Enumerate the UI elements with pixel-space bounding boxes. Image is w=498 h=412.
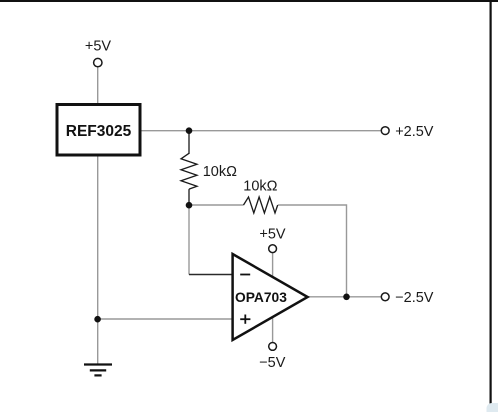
svg-text:10kΩ: 10kΩ (243, 179, 277, 195)
wire ground node to non-inverting input (98, 318, 233, 320)
wire op-amp bottom to -5V supply (272, 316, 274, 342)
terminal circle +5V top (94, 58, 102, 66)
frame right border (490, 0, 492, 404)
op-amp non-inverting pin mark (240, 315, 250, 324)
terminal circle -2.5V (381, 293, 389, 301)
terminal circle op-amp +5V supply (269, 245, 277, 253)
junction node C (ground wire / non-inverting) (94, 316, 101, 323)
svg-text:OPA703: OPA703 (235, 290, 287, 305)
wire node to inverting input (188, 205, 190, 275)
wire REF3025 bottom to ground (97, 156, 99, 365)
wire +5V supply to op-amp top (272, 253, 274, 276)
svg-text:10kΩ: 10kΩ (203, 164, 237, 180)
REF3025 U1 box (57, 105, 140, 156)
terminal circle +2.5V (381, 127, 389, 135)
frame top border (0, 0, 498, 2)
svg-text:REF3025: REF3025 (66, 123, 132, 140)
watermark corner blob (487, 403, 498, 412)
op-amp inverting pin mark (240, 274, 250, 276)
svg-text:+5V: +5V (259, 226, 286, 242)
svg-text:+2.5V: +2.5V (395, 124, 434, 140)
wire +5V to REF3025 top (97, 67, 99, 103)
ground (84, 365, 112, 376)
op-amp U2 OPA703 triangle (233, 254, 308, 340)
wire node to R2 left (189, 204, 244, 206)
terminal circle op-amp -5V supply (269, 343, 277, 351)
svg-text:+5V: +5V (85, 39, 112, 55)
svg-text:−2.5V: −2.5V (395, 290, 434, 306)
wire op-amp output to -2.5V terminal (309, 296, 381, 298)
junction node A (REF out / R1) (186, 127, 193, 134)
svg-text:−5V: −5V (259, 355, 286, 371)
junction node D (output / feedback) (343, 294, 350, 301)
wire R2 right feedback to output (278, 205, 347, 297)
junction node B (R1 / R2 / inverting) (186, 202, 193, 209)
wire REF3025 out to +2.5V terminal (141, 130, 381, 132)
resistor R1 10k vertical (181, 131, 197, 206)
resistor R2 10k horizontal (244, 197, 278, 213)
